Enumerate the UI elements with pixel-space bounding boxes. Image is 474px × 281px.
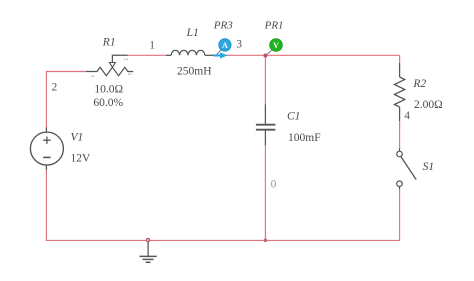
- svg-text:R1: R1: [102, 37, 116, 49]
- probe PR1 pointer: [266, 50, 272, 55]
- svg-text:L1: L1: [186, 27, 199, 39]
- resistor R1 (potentiometer) wiper lead: [112, 55, 127, 62]
- switch S1 bottom lead: [399, 186, 401, 189]
- node junction at ground: [146, 238, 150, 242]
- svg-text:A: A: [222, 41, 228, 50]
- voltage source V1 leads: [45, 128, 47, 133]
- wire: left branch horizontal to R1: [46, 71, 86, 73]
- probe PR3 pointer: [217, 50, 221, 55]
- svg-text:60.0%: 60.0%: [93, 97, 123, 109]
- svg-text:C1: C1: [287, 110, 300, 122]
- wire: right branch R2 to S1: [399, 121, 401, 150]
- resistor R2 zigzag body: [394, 77, 404, 107]
- svg-text:1: 1: [149, 40, 155, 52]
- switch S1 blade: [401, 157, 416, 180]
- inductor L1 leads: [166, 54, 171, 56]
- switch S1 top lead: [399, 149, 401, 152]
- svg-text:S1: S1: [423, 161, 435, 173]
- svg-text:PR1: PR1: [264, 20, 284, 32]
- probe PR3 circle (ammeter): [219, 39, 231, 51]
- svg-text:1: 1: [89, 75, 95, 78]
- svg-text:R2: R2: [412, 78, 426, 90]
- wire: left branch vertical lower (below V1): [45, 170, 47, 241]
- node junction at top of C1: [263, 54, 267, 58]
- inductor L1 coil: [171, 50, 205, 55]
- wire: middle branch above C1: [264, 55, 266, 105]
- voltage source V1 minus sign: [43, 156, 50, 158]
- svg-text:2: 2: [123, 58, 129, 61]
- svg-text:10.0Ω: 10.0Ω: [94, 84, 123, 96]
- svg-text:2.00Ω: 2.00Ω: [414, 99, 443, 111]
- voltage source V1 plus sign: [43, 137, 50, 144]
- ground bar 1: [140, 255, 157, 257]
- svg-text:3: 3: [126, 72, 132, 75]
- svg-text:V: V: [273, 41, 279, 50]
- resistor R1 wiper arrowhead: [109, 63, 115, 68]
- resistor R2 leads: [399, 63, 401, 77]
- svg-text:12V: 12V: [71, 152, 92, 164]
- svg-text:2: 2: [52, 82, 58, 94]
- wire: right branch below S1: [399, 189, 401, 241]
- wire: middle branch below C1: [264, 145, 266, 240]
- switch S1 bottom terminal: [397, 181, 403, 187]
- svg-text:3: 3: [236, 39, 242, 51]
- capacitor C1 leads: [264, 105, 266, 124]
- svg-text:V1: V1: [71, 131, 84, 143]
- ground bar 2: [143, 258, 154, 260]
- svg-text:PR3: PR3: [213, 20, 233, 32]
- voltage source V1 circle: [30, 132, 63, 165]
- wire: bottom rail: [46, 239, 400, 241]
- ground bar 3: [146, 261, 151, 263]
- wire: right branch above R2: [399, 55, 401, 63]
- resistor R1 zigzag body: [86, 67, 133, 75]
- wire: top rail from R1 wiper corner to inductor: [46, 55, 400, 241]
- capacitor C1 plates: [256, 124, 276, 126]
- svg-text:0: 0: [271, 179, 277, 191]
- svg-text:4: 4: [404, 110, 410, 122]
- wire: top rail inductor right lead to right corner: [217, 54, 400, 56]
- switch S1 top terminal: [397, 151, 403, 157]
- svg-text:250mH: 250mH: [177, 65, 212, 77]
- probe PR1 circle (voltmeter): [270, 39, 283, 52]
- probe PR3 arrow: [214, 52, 228, 58]
- svg-text:100mF: 100mF: [288, 132, 321, 144]
- ground stem: [147, 240, 149, 256]
- wire: left branch vertical upper (node 2): [45, 71, 47, 128]
- node junction at bottom of C1: [264, 239, 268, 243]
